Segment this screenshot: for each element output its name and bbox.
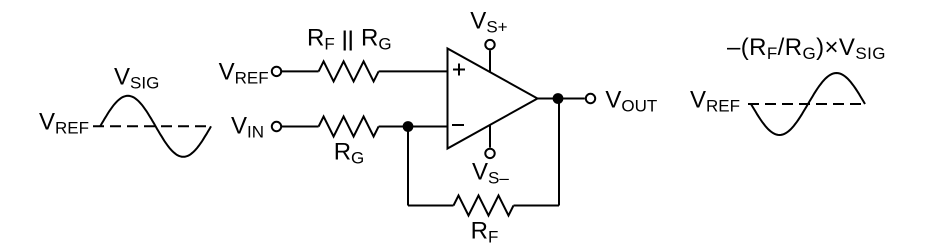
wire RF||RG to op-amp + input (379, 70, 448, 72)
junction node at output (553, 93, 564, 104)
svg-text:RG: RG (334, 139, 365, 168)
wire VS+ supply (489, 50, 491, 72)
wire op-amp output (538, 98, 585, 100)
junction node at inverting input (403, 121, 414, 132)
svg-text:RF: RF (471, 218, 499, 247)
svg-text:VREF: VREF (690, 86, 740, 115)
wire feedback right vertical (558, 99, 560, 206)
svg-text:VSIG: VSIG (114, 64, 159, 93)
svg-text:VREF: VREF (219, 59, 269, 88)
resistor RG (319, 117, 379, 137)
node VOUT output waveform dashed baseline (748, 103, 867, 105)
wire VS- supply (489, 125, 491, 148)
terminal VOUT (586, 94, 595, 103)
wire VREF terminal to RF||RG (282, 70, 319, 72)
node VSIG input sine wave (100, 96, 211, 157)
op-amp U1 (448, 49, 538, 149)
wire feedback bottom left (408, 205, 454, 207)
resistor RF||RG (319, 61, 379, 81)
op-amp - input symbol (452, 124, 464, 126)
svg-text:RF: RF (307, 25, 335, 54)
resistor RF feedback (454, 196, 514, 216)
svg-text:–(RF/RG)×VSIG: –(RF/RG)×VSIG (727, 34, 886, 63)
wire RG to op-amp - input (379, 126, 448, 128)
wire feedback left vertical (407, 127, 409, 206)
node VSIG input waveform dashed baseline (93, 125, 212, 127)
wire VIN terminal to RG (282, 126, 319, 128)
terminal VIN (272, 122, 281, 131)
terminal VREF (272, 67, 281, 76)
wire feedback bottom right (514, 205, 560, 207)
parallel bars of RF || RG label (345, 31, 351, 51)
svg-text:VIN: VIN (231, 113, 264, 142)
terminal VS+ (485, 40, 494, 49)
svg-text:VS+: VS+ (470, 8, 507, 37)
op-amp + input symbol (453, 64, 465, 76)
svg-text:VREF: VREF (39, 109, 89, 138)
svg-text:VOUT: VOUT (605, 87, 657, 116)
svg-text:RG: RG (361, 25, 392, 54)
node VOUT output sine wave (inverted) (751, 73, 865, 135)
terminal VS- (485, 149, 494, 158)
svg-text:VS–: VS– (472, 159, 509, 188)
